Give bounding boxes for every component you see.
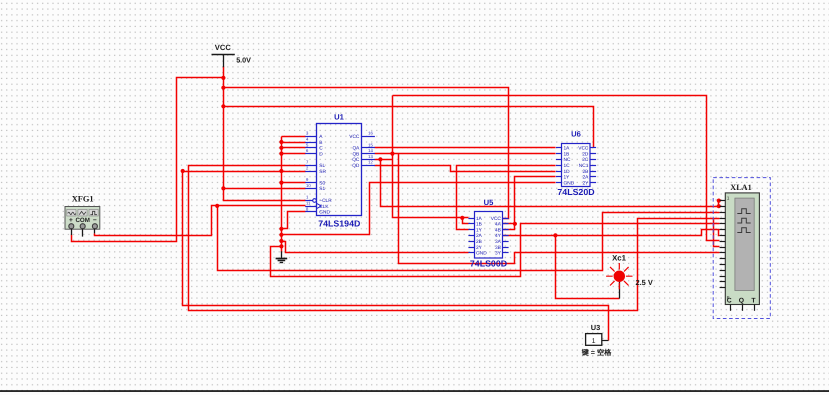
- shift register U1 74LS194D: [305, 113, 375, 229]
- svg-text:1A: 1A: [476, 216, 483, 222]
- power VCC symbol 5.0V: [212, 43, 252, 67]
- svg-text:SR: SR: [319, 169, 326, 175]
- svg-text:4Y: 4Y: [495, 233, 502, 239]
- svg-text:3A: 3A: [495, 239, 502, 245]
- wire: ground bus vertical: [281, 137, 283, 253]
- wire: U1 QB pin 14 to U6 1B pin 2: [375, 153, 556, 155]
- svg-text:VCC: VCC: [491, 216, 502, 222]
- svg-text:GND: GND: [476, 251, 487, 257]
- svg-text:2D: 2D: [582, 151, 589, 157]
- svg-text:U5: U5: [484, 198, 494, 207]
- svg-text:COM: COM: [75, 217, 89, 224]
- ground: [276, 251, 288, 262]
- svg-text:−: −: [93, 217, 97, 224]
- wire: ground bus / SR pin 2 / riser to U3 key line: [183, 171, 306, 173]
- svg-text:S0: S0: [319, 180, 325, 186]
- svg-text:U1: U1: [334, 113, 344, 122]
- wire: U5 4Y pin 12 to XLA1 channel 6: [503, 230, 720, 236]
- svg-text:NC1: NC1: [579, 163, 589, 169]
- wire: VCC stem down to U1 ~CLR pin 1: [224, 67, 306, 201]
- wire: XLA1 channel 1-2 link: [719, 201, 720, 207]
- svg-text:5.0V: 5.0V: [236, 55, 251, 64]
- wire: U5 4A tie: [503, 223, 515, 225]
- wire: ground bus to U1 A pin 3: [282, 136, 306, 138]
- svg-text:2C: 2C: [582, 157, 589, 163]
- wire: ground bus to U5 GND pin 7: [282, 242, 469, 253]
- wire: clock branch to XLA1 channel 3: [218, 206, 720, 271]
- svg-text:GND: GND: [319, 210, 330, 216]
- svg-text:2Y: 2Y: [583, 180, 590, 186]
- dual 4-input NAND U6 74LS20D: [556, 130, 596, 198]
- wire: ground bus to U1 S0 pin 9: [282, 182, 306, 184]
- svg-text:13: 13: [368, 154, 373, 159]
- svg-text:U6: U6: [571, 130, 581, 139]
- svg-text:QC: QC: [352, 157, 360, 163]
- svg-text:XFG1: XFG1: [72, 195, 94, 204]
- wire: ground bus to U1 B pin 4: [282, 142, 306, 144]
- quad NAND U5 74LS00D: [468, 198, 508, 268]
- wire: VCC branch to U1 S1 pin 10: [224, 188, 306, 190]
- svg-text:2B: 2B: [476, 239, 482, 245]
- wire: U1 QC pin 13 stub line: [375, 159, 393, 161]
- function generator XFG1: [65, 195, 100, 237]
- svg-text:Q: Q: [739, 298, 744, 305]
- svg-text:QB: QB: [352, 151, 359, 157]
- svg-text:~CLR: ~CLR: [319, 198, 332, 204]
- svg-text:1C: 1C: [564, 163, 571, 169]
- wire: QC riser to XLA1 channels 1 and 2: [381, 160, 719, 207]
- svg-text:SL: SL: [319, 163, 325, 169]
- svg-text:1: 1: [592, 338, 596, 345]
- svg-text:C: C: [727, 298, 732, 305]
- wire: lower route to XLA1 channel 10: [399, 154, 720, 264]
- logic analyzer XLA1: [713, 178, 770, 319]
- wire: VCC left branch down to XFG1 plus terminal: [72, 78, 224, 242]
- svg-text:+: +: [69, 217, 73, 224]
- svg-text:B: B: [319, 140, 322, 146]
- wire: U1 QD pin 12 to U6 1D pin 5 with jog: [375, 166, 556, 172]
- svg-text:3B: 3B: [495, 245, 501, 251]
- wire: VCC branch to U5 VCC pin 14: [224, 88, 509, 219]
- wire: VCC branch to U6 VCC pin 14: [224, 107, 594, 148]
- svg-text:VCC: VCC: [215, 43, 232, 52]
- wire: U5 1Y pin 3 to U6 1C pin 4: [457, 166, 556, 230]
- svg-text:Xc1: Xc1: [612, 254, 627, 263]
- svg-text:2B: 2B: [583, 169, 589, 175]
- svg-text:10: 10: [306, 183, 311, 188]
- svg-text:2Y: 2Y: [476, 245, 483, 251]
- svg-text:C: C: [319, 146, 323, 152]
- svg-text:VCC: VCC: [578, 146, 589, 152]
- svg-text:1B: 1B: [476, 222, 482, 228]
- svg-text:3Y: 3Y: [495, 251, 502, 257]
- svg-text:D: D: [319, 151, 323, 157]
- wire: ground bus to XLA1 channel 5: [271, 224, 720, 277]
- wire: U1 QA pin 15 to U6 1A pin 1: [375, 147, 556, 149]
- wire: XLA1 channel 9 riser: [714, 219, 720, 247]
- svg-text:11: 11: [306, 201, 311, 206]
- svg-text:1Y: 1Y: [476, 227, 483, 233]
- wire: QB riser down to U5 1A pin 1: [393, 96, 469, 218]
- svg-text:4A: 4A: [495, 222, 502, 228]
- svg-text:键 = 空格: 键 = 空格: [581, 348, 613, 357]
- probe Xc1 2.5 V: [606, 254, 653, 299]
- wire: U5 1A 1B tie: [463, 218, 469, 224]
- svg-text:VCC: VCC: [349, 134, 360, 140]
- svg-text:74LS20D: 74LS20D: [557, 187, 594, 197]
- wire: XLA1 channel 7 drop from channel 6 line: [719, 230, 720, 236]
- svg-text:74LS194D: 74LS194D: [318, 219, 360, 229]
- svg-text:1Y: 1Y: [564, 175, 571, 181]
- svg-text:QA: QA: [352, 146, 360, 152]
- wire: probe Xc1 tap: [556, 236, 620, 299]
- svg-text:NC: NC: [564, 157, 571, 163]
- key switch U3 (space): [581, 323, 613, 357]
- svg-text:2A: 2A: [583, 175, 590, 181]
- wire: ground bus to U6 GND pin 7: [282, 183, 556, 235]
- svg-text:12: 12: [368, 160, 373, 165]
- svg-text:16: 16: [368, 131, 373, 136]
- wire: SR net down and right to key U3: [183, 172, 609, 341]
- wire: QB top route to XLA1 channel 8: [393, 96, 720, 241]
- svg-text:U3: U3: [591, 323, 600, 332]
- svg-text:2.5 V: 2.5 V: [636, 278, 653, 287]
- wire: ground bus to U1 D pin 6: [282, 153, 306, 155]
- svg-text:GND: GND: [564, 180, 575, 186]
- svg-text:QD: QD: [352, 163, 360, 169]
- svg-text:4B: 4B: [495, 227, 501, 233]
- svg-text:14: 14: [368, 148, 373, 153]
- svg-text:1D: 1D: [564, 169, 571, 175]
- svg-text:15: 15: [368, 142, 373, 147]
- svg-text:2A: 2A: [476, 233, 483, 239]
- wire: U1 SL pin 7 feedback from XLA1 channel 4 riser: [189, 166, 720, 311]
- wire: XFG1 minus terminal to U1 CLK pin 11: [95, 206, 306, 236]
- wire: U6 1Y pin 6 to U5 4A 4B pins: [503, 177, 556, 230]
- wire: U1 GND pin 8 to ground bus: [282, 212, 306, 229]
- svg-text:1A: 1A: [564, 146, 571, 152]
- svg-text:74LS00D: 74LS00D: [470, 259, 507, 269]
- svg-text:1B: 1B: [564, 151, 570, 157]
- svg-text:S1: S1: [319, 186, 325, 192]
- svg-text:XLA1: XLA1: [730, 183, 751, 192]
- wire: ground bus to U1 C pin 5: [282, 147, 306, 149]
